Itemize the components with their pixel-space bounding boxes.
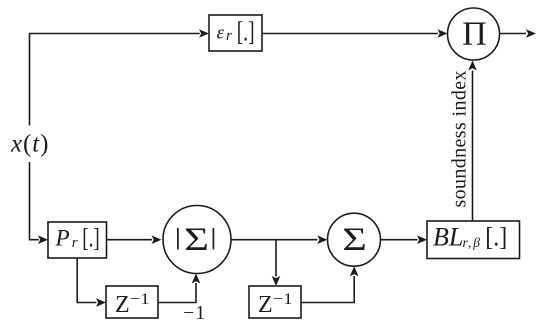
arrowhead into BL box	[417, 235, 427, 244]
label P_r[.]	[55, 224, 100, 253]
wire Z1 box right then up into abs-sum circle	[158, 283, 196, 303]
svg-text:r: r	[226, 28, 233, 44]
wire top-left corner from x(t) line to eps box	[30, 34, 200, 126]
wire Sigma circle to BL box	[381, 239, 418, 241]
wire abs-sum circle to Sigma circle with junction	[231, 239, 318, 241]
arrowhead up into Pi circle bottom	[468, 61, 477, 71]
svg-text:Σ: Σ	[184, 222, 209, 258]
box eps_r[.]	[209, 15, 262, 51]
arrowhead up into abs-sum circle bottom	[192, 274, 201, 284]
svg-text:P: P	[55, 226, 70, 251]
arrowhead into Z1 box	[96, 298, 106, 307]
arrowhead down into Z2 box top	[272, 276, 281, 286]
circle abs-sum	[163, 206, 231, 274]
wire left vertical below x(t) label into P box	[30, 162, 39, 240]
arrowhead into eps box	[199, 29, 209, 38]
wire P box down to Z1 box	[77, 258, 96, 303]
wire Pi circle output	[500, 33, 527, 35]
svg-text:[.]: [.]	[485, 223, 507, 252]
wire P box to abs-sum circle	[107, 239, 153, 241]
wire eps box to Pi circle	[262, 33, 438, 35]
wire Z2 box right then up into Sigma circle	[301, 276, 354, 303]
svg-text:−1: −1	[183, 303, 206, 324]
box Z1	[106, 286, 158, 318]
svg-text:ε: ε	[217, 22, 225, 43]
svg-text:[.]: [.]	[237, 16, 255, 47]
svg-text:r: r	[72, 235, 78, 251]
arrowhead into Sigma circle left	[317, 235, 327, 244]
svg-text:[.]: [.]	[82, 224, 99, 253]
svg-text:r,β: r,β	[463, 235, 482, 250]
svg-text:soundness index: soundness index	[449, 71, 471, 208]
arrowhead output right	[526, 29, 536, 38]
box Z2	[249, 286, 301, 318]
wire junction down into Z2 box	[275, 240, 277, 277]
svg-text:Σ: Σ	[342, 221, 367, 258]
label eps_r[.]	[217, 16, 255, 47]
wire BL box up to Pi circle (soundness index)	[472, 71, 474, 222]
label abs-sum	[178, 222, 214, 258]
arrowhead into P box	[38, 235, 48, 244]
svg-text:Π: Π	[462, 16, 486, 53]
svg-text:BL: BL	[433, 223, 463, 252]
arrowhead into abs-sum circle left	[152, 235, 162, 244]
arrowhead into Pi circle left	[438, 29, 448, 38]
svg-text:x(t): x(t)	[10, 131, 49, 158]
box P_r[.]	[48, 222, 107, 258]
box BL_r,beta[.]	[427, 221, 520, 259]
label Sigma	[342, 221, 367, 258]
circle Sigma	[328, 213, 381, 266]
arrowhead up into Sigma circle bottom	[350, 266, 359, 276]
label BL_r,beta[.]	[433, 223, 507, 252]
circle Pi (product)	[448, 8, 500, 60]
